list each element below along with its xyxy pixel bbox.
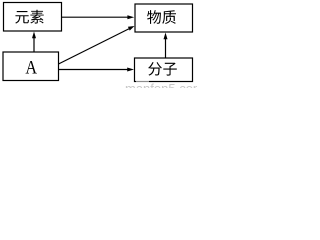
label 分子 [148, 62, 177, 76]
box 元素 [4, 3, 62, 32]
watermark lighten patch [136, 80, 149, 82]
label 元素 [15, 10, 44, 24]
wire A-to-物质 diagonal [59, 29, 129, 64]
wire A-to-元素 [33, 37, 35, 52]
wire 分子-to-物质 [165, 39, 167, 59]
box 物质 [135, 4, 193, 32]
arrowhead to 物质 lower-left (from A) [128, 26, 135, 31]
arrowhead to 分子 left (from A) [127, 68, 134, 72]
arrowhead to 物质 left (from 元素) [127, 15, 134, 19]
label 物质 [147, 10, 176, 24]
svg-text:manfen5.com: manfen5.com [125, 81, 197, 88]
wire A-to-分子 [59, 69, 129, 71]
arrowhead to 元素 bottom (from A) [32, 32, 36, 39]
svg-text:A: A [25, 56, 37, 78]
arrowhead to 物质 bottom (from 分子) [164, 33, 168, 40]
wire 元素-to-物质 [62, 16, 129, 18]
box 分子 [135, 58, 193, 82]
box A [3, 52, 59, 81]
